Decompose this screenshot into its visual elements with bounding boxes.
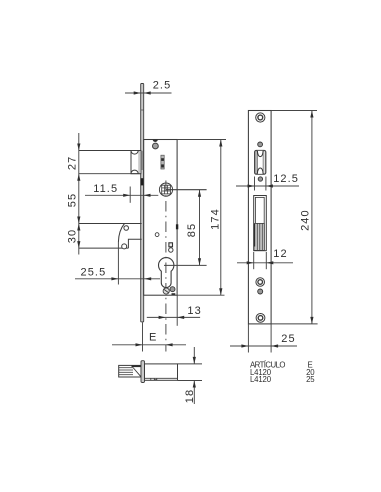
latch opening (255, 150, 266, 174)
faceplate (side view, thin strip) (141, 84, 144, 322)
bolt opening (254, 196, 267, 251)
flange (faceplate edge-on) (141, 361, 145, 383)
screw hole top (256, 113, 265, 122)
screw dark (below cylinder) (170, 287, 175, 292)
euro cylinder profile (159, 258, 174, 288)
vertical centre line (dash-dot) (165, 181, 167, 352)
lock case outline (144, 140, 177, 296)
svg-text:2.5: 2.5 (153, 79, 172, 91)
body extension lines (178, 363, 203, 365)
dim 12.5 (254, 177, 256, 191)
latch bottom edge + extension (79, 173, 141, 175)
faceplate dark block at follower height (141, 178, 144, 185)
svg-text:12: 12 (273, 248, 287, 260)
case top edge notch (153, 140, 158, 142)
arrow down at deadbolt bottom (77, 241, 80, 248)
latch top edge + dim 27 extension (79, 150, 141, 152)
dim 11.5 line (85, 194, 158, 196)
faceplate dark band at latch (141, 151, 144, 170)
small screw (258, 142, 263, 147)
svg-text:55: 55 (67, 193, 79, 207)
dim 174 line (220, 140, 222, 296)
strike plate outline (248, 111, 271, 324)
left dimension line (78, 133, 80, 255)
screw hole mid (256, 278, 265, 287)
dim 240 (271, 110, 317, 112)
svg-text:12.5: 12.5 (273, 173, 299, 185)
hatched insert (254, 223, 264, 250)
dim 12 (253, 252, 255, 269)
case top extension line (177, 139, 226, 141)
screw hole bottom (256, 314, 265, 323)
case edge tab (176, 224, 178, 229)
dark mark (172, 293, 176, 295)
small screw below latch opening (258, 177, 262, 181)
svg-text:174: 174 (209, 208, 221, 230)
small screw (258, 289, 263, 294)
latch bottom arc (131, 170, 138, 174)
deadbolt rivet 1 (124, 226, 129, 231)
screw with slot (below cylinder) (163, 288, 169, 294)
case bottom extension line (177, 294, 224, 296)
follower square (162, 185, 171, 194)
svg-text:13: 13 (187, 305, 201, 317)
arrow down at latch top (77, 144, 80, 151)
follower extension line (166, 189, 207, 191)
svg-text:85: 85 (186, 223, 198, 237)
deadbolt nose arc (118, 224, 124, 243)
dim E line (112, 344, 186, 346)
body (145, 364, 178, 380)
dim 13 line (147, 316, 200, 318)
dim 85 line (199, 190, 201, 266)
svg-text:E: E (149, 332, 157, 344)
follower hub circle (159, 183, 172, 196)
latch top arc (131, 151, 138, 155)
arrow up at latch bottom (77, 174, 80, 181)
small hole (155, 233, 159, 237)
svg-text:25: 25 (306, 375, 315, 384)
small square fitting (169, 243, 173, 247)
deadbolt step (128, 239, 141, 248)
svg-text:240: 240 (300, 209, 312, 231)
svg-text:L4120: L4120 (250, 375, 272, 384)
svg-text:25.5: 25.5 (80, 266, 106, 278)
spindle (119, 365, 141, 377)
dim 2.5 line (125, 92, 172, 94)
svg-text:27: 27 (67, 156, 79, 170)
cylinder extension line (164, 264, 207, 266)
dim 18 (193, 347, 195, 364)
arrow up below deadbolt top (77, 224, 80, 231)
faceplate joint tick (141, 109, 144, 111)
small circle fitting (169, 248, 173, 252)
svg-text:11.5: 11.5 (93, 183, 118, 195)
svg-text:18: 18 (184, 389, 196, 403)
arrow down at deadbolt top (77, 217, 80, 224)
svg-text:25: 25 (281, 333, 295, 345)
screw (case top) (153, 143, 159, 149)
dim 25 (247, 324, 249, 353)
deadbolt rivet 2 (122, 244, 127, 249)
latch bolt (side view) (131, 151, 141, 174)
deadbolt top edge + dim 30 extension (79, 223, 142, 225)
deadbolt bottom edge + extension (79, 247, 129, 249)
adjustment slot (161, 155, 164, 169)
dim 25.5 line (75, 278, 160, 280)
svg-text:30: 30 (67, 229, 79, 243)
